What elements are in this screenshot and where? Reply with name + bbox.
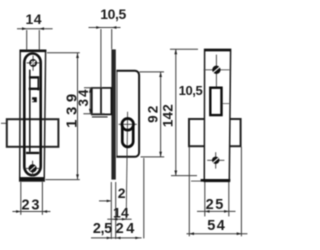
node: left view top screw crosshair (32, 56, 34, 71)
dim 139: extension lines (47, 52, 80, 54)
svg-text:34: 34 (76, 87, 91, 106)
svg-text:92: 92 (146, 103, 161, 122)
svg-text:54: 54 (207, 218, 226, 234)
node: right view wing box (189, 119, 241, 146)
node: right view plate bottom bar (201, 179, 231, 182)
node: euro cylinder lower stadium (122, 126, 133, 147)
svg-text:25: 25 (206, 197, 225, 213)
node: right view back plate (204, 49, 230, 181)
svg-text:23: 23 (22, 198, 42, 214)
arrowheads (16, 26, 241, 239)
dim 14 arrows (outside) (22, 27, 27, 30)
dim 92: dimension line (160, 72, 162, 157)
wire: latch box lower lip (92, 116, 108, 118)
node: left view faceplate outline (20, 50, 46, 181)
wire: extension below case back (143, 158, 145, 238)
dim 139 arrows (76, 53, 79, 58)
node: left view faceplate top edge (thick) (20, 49, 47, 52)
dim 10,5 top: dimension line (89, 27, 121, 29)
node: left view lower channel bar (26, 152, 39, 154)
dim 2: leader line (99, 200, 111, 202)
wire: latch box divider (100, 88, 102, 115)
svg-text:2,5: 2,5 (93, 221, 112, 237)
node: middle view faceplate bar (side) (111, 49, 115, 179)
dim 10,5 top: extension lines (100, 29, 102, 88)
dim 14 bottom: dimension line (107, 218, 131, 220)
dim 25 arrows (205, 210, 210, 213)
node: cylinder axis vertical centerline (126, 112, 127, 220)
dim 23: dimension line (12, 211, 50, 213)
node: left view small dark stop box (32, 97, 37, 102)
dim 54: extension lines (188, 147, 190, 236)
dim 25: extension lines (204, 182, 206, 216)
svg-text:10,5: 10,5 (100, 6, 126, 22)
wire: extension below faceplate back (115, 182, 117, 239)
dim 34: extension lines (84, 87, 103, 89)
dim 34 arrows (89, 88, 92, 93)
node: middle view lock case (side) (116, 71, 139, 157)
dim 92 arrows (159, 72, 162, 77)
node: left view bottom screw crosshair (32, 161, 34, 177)
dim 54 arrows (189, 232, 194, 235)
node: euro cylinder circle (122, 119, 134, 131)
wire: thin extension left of bottom bar (191, 180, 201, 182)
svg-text:14: 14 (26, 11, 43, 27)
dim 23: extension lines (20, 182, 22, 215)
svg-text:142: 142 (161, 104, 176, 127)
node: right view top screw crosshair (215, 55, 217, 87)
wire: left view latch channel left line (29, 70, 31, 152)
dim 14 top-left: extension lines (26, 30, 28, 50)
node: left view bottom screw (29, 165, 36, 172)
dim 139: dimension line (77, 53, 79, 179)
dim 2,5 / 24: dimension line (91, 237, 142, 239)
wire: plate seam right of slot (223, 103, 230, 105)
wire: left view small leader at image left edge (1, 122, 7, 124)
dim 10,5 arrows (outside) (96, 26, 101, 29)
node: left view through-bolt wing box (7, 119, 59, 147)
dim 142: extension lines (170, 48, 198, 50)
svg-text:14: 14 (113, 204, 129, 220)
dim 54: dimension line (187, 233, 248, 235)
dim 92: extension lines (139, 71, 164, 73)
wire: left view latch channel right line (37, 76, 39, 90)
node: right view top screw (212, 66, 220, 74)
dim 142 arrows (174, 49, 177, 54)
dim 34: dimension line (89, 88, 91, 114)
wire: extension below faceplate front (110, 182, 112, 239)
node: right view bottom screw crosshair (215, 152, 217, 168)
node: left view stadium (rounded lock housing) (24, 54, 40, 176)
dim 14 top-left: dimension line (17, 28, 53, 30)
svg-text:24: 24 (116, 221, 137, 237)
node: cylinder horizontal centerline (119, 123, 137, 125)
dim 2,5 / 24 arrows (107, 237, 112, 240)
node: left view latch bar 2 (29, 88, 40, 90)
node: left view faceplate bottom bar (20, 177, 44, 181)
dim 14 bottom arrows (113, 218, 118, 221)
node: left view top screw (30, 60, 36, 66)
node: left view latch bar 1 (29, 76, 39, 78)
dim 25: dimension line (197, 210, 236, 212)
node: right view bottom screw (212, 157, 219, 164)
node: middle view protruding latch box (92, 88, 112, 115)
svg-text:2: 2 (118, 185, 126, 201)
dim 142: dimension line (175, 49, 177, 175)
dim 23 arrows (outside) (16, 210, 21, 213)
dim 2 arrow (107, 200, 112, 203)
node: right view latch slot (210, 88, 221, 115)
wire: case front edge behind faceplate (116, 71, 118, 157)
svg-text:10,5: 10,5 (179, 83, 203, 98)
node: right view plate top edge (thick) (204, 49, 230, 51)
